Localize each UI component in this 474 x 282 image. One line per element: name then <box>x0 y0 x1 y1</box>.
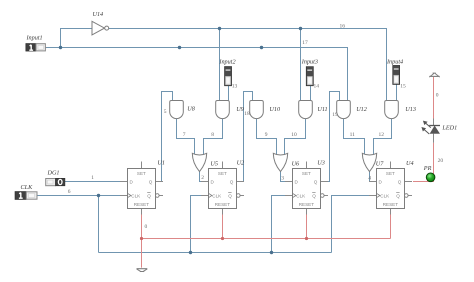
switch Input3 <box>306 67 313 86</box>
node net label 17 <box>302 40 308 46</box>
svg-text:DG1: DG1 <box>47 169 60 176</box>
switch CLK <box>15 192 37 200</box>
svg-text:U14: U14 <box>93 11 104 18</box>
wire CLK to U1 (net 6) <box>37 195 128 197</box>
inverter U14 <box>92 11 109 35</box>
svg-text:5: 5 <box>164 109 167 115</box>
svg-text:Input2: Input2 <box>218 58 235 65</box>
wire reset bus to ground <box>141 239 143 268</box>
wire Input1 bus (net to gates U8/U10/U12, label 17) <box>46 48 348 101</box>
wire U7 output net 4 to D of U4 <box>370 171 378 182</box>
node net label 9 <box>265 132 268 138</box>
svg-text:Q: Q <box>147 194 151 199</box>
node net label 0 top <box>436 92 439 98</box>
node junction CLK bus U3 <box>270 251 273 254</box>
wire Input2 to U9 <box>228 86 230 101</box>
svg-text:14: 14 <box>314 83 320 89</box>
node net label 5 <box>164 109 167 115</box>
wire CLK riser to U3 <box>272 196 294 253</box>
svg-text:10: 10 <box>291 132 297 138</box>
svg-text:Q: Q <box>230 179 234 184</box>
node junction Input1-inverter <box>59 46 62 49</box>
svg-text:0: 0 <box>436 92 439 98</box>
node junction CLK <box>97 194 100 197</box>
svg-text:11: 11 <box>350 132 356 138</box>
gate U11 AND <box>299 101 328 119</box>
svg-text:CLK: CLK <box>212 193 222 198</box>
svg-text:9: 9 <box>265 132 268 138</box>
wire U10 output net 9 <box>257 119 277 155</box>
node net label 0 bottom <box>145 224 148 230</box>
node net label 8 <box>211 132 214 138</box>
wire LED anode stub <box>433 134 435 143</box>
svg-text:RESET: RESET <box>299 202 315 207</box>
gate U6 OR <box>273 153 300 171</box>
LED1 <box>421 121 457 134</box>
node junction reset U3 <box>305 237 308 240</box>
flip-flop U3 <box>285 159 328 214</box>
node net label 1 <box>91 175 94 181</box>
svg-text:19: 19 <box>332 112 338 118</box>
switch Input4 <box>393 65 400 84</box>
node net label 15 <box>400 84 406 90</box>
gate U9 AND <box>216 101 244 119</box>
node junction net16-U11 <box>299 27 302 30</box>
svg-text:U12: U12 <box>356 106 367 113</box>
node net label 4 <box>368 176 371 182</box>
svg-text:U5: U5 <box>210 160 218 167</box>
wire LED to ground net 0 (red) <box>433 77 435 119</box>
node junction Input1-U10 <box>260 46 263 49</box>
node junction reset U2 <box>221 237 224 240</box>
svg-text:Q: Q <box>149 179 153 184</box>
flip-flop U4 <box>369 160 414 214</box>
wire U8 output net 7 <box>177 119 195 155</box>
wire Q3 to U12 (net 19) <box>321 92 340 182</box>
svg-text:U8: U8 <box>187 106 195 113</box>
svg-text:16: 16 <box>340 23 346 29</box>
svg-text:CLK: CLK <box>296 193 306 198</box>
svg-text:15: 15 <box>400 84 406 90</box>
node Input2 label <box>218 58 235 65</box>
node Input4 label <box>386 58 403 65</box>
wire Input4 to U13 <box>396 85 398 101</box>
ground (top, flipped, net 0) <box>429 73 439 77</box>
svg-text:PR: PR <box>423 165 432 172</box>
gate U8 AND <box>170 101 196 119</box>
svg-text:3: 3 <box>281 176 284 182</box>
svg-text:0: 0 <box>145 224 148 230</box>
svg-text:17: 17 <box>302 40 308 46</box>
svg-text:12: 12 <box>379 132 385 138</box>
switch Input1 <box>26 44 47 52</box>
node net label 14 <box>314 83 320 89</box>
svg-text:Q: Q <box>312 194 316 199</box>
wire LED cathode stub <box>433 119 435 126</box>
svg-text:2: 2 <box>201 175 204 181</box>
svg-text:SET: SET <box>386 171 395 176</box>
svg-text:1: 1 <box>91 175 94 181</box>
svg-text:6: 6 <box>68 189 71 195</box>
svg-text:20: 20 <box>438 158 444 164</box>
wire drop to U9 left input <box>219 29 221 101</box>
wire CLK bus vertical <box>98 196 100 253</box>
svg-text:Q: Q <box>228 194 232 199</box>
svg-text:CLK: CLK <box>21 184 34 191</box>
flip-flop U1 <box>120 159 165 214</box>
node net label 12 <box>379 132 385 138</box>
node Input1 label <box>26 35 43 42</box>
wire net 16 inverter output bus <box>109 29 387 101</box>
svg-text:4: 4 <box>368 176 371 182</box>
svg-text:Q: Q <box>398 179 402 184</box>
flip-flop U2 <box>201 159 244 214</box>
wire U13 output net 12 <box>374 119 392 155</box>
switch DG1 <box>46 178 65 186</box>
wire Input3 to U11 <box>310 86 312 101</box>
gate U10 AND <box>250 101 281 119</box>
wire U5 output net 2 to D of U2 <box>200 171 210 182</box>
svg-text:U2: U2 <box>237 159 245 166</box>
node net label 10 <box>291 132 297 138</box>
wire U9 output net 8 <box>204 119 223 155</box>
node junction net16-U9 <box>218 27 221 30</box>
wire inverter input from Input1 bus <box>61 29 93 48</box>
svg-text:SET: SET <box>218 171 227 176</box>
wire DG1 to D of U1 (net 1) <box>65 181 128 183</box>
svg-text:U11: U11 <box>317 106 327 113</box>
wire CLK riser to U2 <box>191 196 210 253</box>
svg-text:7: 7 <box>183 132 186 138</box>
node net label 19 <box>332 112 338 118</box>
svg-text:U13: U13 <box>405 106 416 113</box>
wire drop to U11 left input <box>300 29 302 101</box>
svg-text:CLK: CLK <box>380 193 390 198</box>
node net label 16 <box>340 23 346 29</box>
node net label 7 <box>183 132 186 138</box>
svg-text:U10: U10 <box>269 106 281 113</box>
svg-text:U4: U4 <box>406 160 414 167</box>
probe PR <box>423 165 435 182</box>
wire reset U3 (red) <box>306 214 308 239</box>
gate U7 OR <box>362 153 384 171</box>
node junction Input1-U8 <box>178 46 181 49</box>
node net label 11 <box>350 132 356 138</box>
svg-text:8: 8 <box>211 132 214 138</box>
wire Q1 to U8 (net 5) <box>156 92 173 182</box>
gate U5 OR <box>192 153 218 171</box>
svg-text:SET: SET <box>302 171 311 176</box>
switch Input2 <box>225 67 232 86</box>
svg-text:Input1: Input1 <box>26 35 43 42</box>
svg-text:U9: U9 <box>236 106 244 113</box>
gate U13 AND <box>385 101 416 119</box>
svg-text:13: 13 <box>232 83 238 89</box>
svg-text:Q: Q <box>396 194 400 199</box>
wire CLK bottom bus <box>99 252 332 254</box>
node Input3 label <box>301 59 318 66</box>
wire U11 output net 10 <box>285 119 306 155</box>
svg-text:U6: U6 <box>292 160 300 167</box>
wire reset bus net 0 (red) <box>142 238 391 240</box>
wire CLK riser to U4 <box>332 196 378 253</box>
node DG1 label <box>47 169 60 176</box>
node CLK label <box>21 184 34 191</box>
wire Q2 to U10 (net 18) <box>237 92 253 182</box>
svg-text:18: 18 <box>244 111 250 117</box>
wire reset U1 (red) <box>141 214 143 239</box>
wire reset U4 (red) <box>390 214 392 239</box>
svg-text:CLK: CLK <box>131 193 141 198</box>
node net label 3 <box>281 176 284 182</box>
wire reset U2 (red) <box>222 214 224 239</box>
svg-text:U1: U1 <box>157 159 165 166</box>
svg-text:Input4: Input4 <box>386 58 403 65</box>
node net label 13 <box>232 83 238 89</box>
node junction CLK bus U2 <box>189 251 192 254</box>
wire U12 output net 11 <box>344 119 365 155</box>
svg-text:U7: U7 <box>376 160 384 167</box>
wire Q4 to probe and LED (net 20, red) <box>413 143 434 182</box>
svg-text:RESET: RESET <box>383 202 399 207</box>
node net label 2 <box>201 175 204 181</box>
node net label 18 <box>244 111 250 117</box>
gate U12 AND <box>337 101 367 119</box>
node junction reset U1 <box>140 237 143 240</box>
svg-text:U3: U3 <box>317 159 325 166</box>
svg-text:RESET: RESET <box>215 202 231 207</box>
svg-text:Q: Q <box>314 179 318 184</box>
node net label 20 <box>438 158 444 164</box>
svg-text:RESET: RESET <box>134 202 150 207</box>
svg-text:Input3: Input3 <box>301 59 318 66</box>
svg-text:LED1: LED1 <box>441 124 457 131</box>
wire U6 output net 3 to D of U3 <box>281 171 294 182</box>
ground (bottom) <box>137 269 148 272</box>
node net label 6 <box>68 189 71 195</box>
svg-text:SET: SET <box>137 171 146 176</box>
